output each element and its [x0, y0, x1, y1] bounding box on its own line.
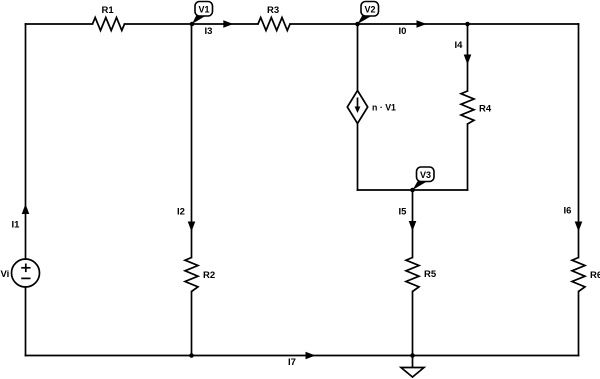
- svg-text:R6: R6: [590, 270, 600, 281]
- svg-text:R3: R3: [267, 5, 279, 16]
- current arrow I7: [306, 352, 316, 360]
- svg-text:R2: R2: [203, 270, 215, 281]
- current arrow I5: [409, 221, 417, 231]
- svg-text:Vi: Vi: [1, 269, 10, 280]
- dependent source n·V1 (diamond): [347, 91, 367, 124]
- resistor R6: [572, 258, 585, 292]
- wire: right wire from top-right corner down to R6: [578, 24, 580, 258]
- node label V2: [358, 2, 379, 25]
- junction I4 branch: [465, 22, 470, 27]
- junction ground: [410, 353, 415, 358]
- svg-text:V3: V3: [420, 170, 431, 180]
- resistor R5: [406, 258, 419, 292]
- current arrow I0: [417, 20, 427, 28]
- svg-text:I0: I0: [399, 26, 407, 37]
- resistor R1: [93, 18, 125, 31]
- svg-text:I6: I6: [564, 206, 572, 217]
- svg-text:V2: V2: [365, 5, 376, 15]
- wire: bottom wire from bottom-left corner to R2 junction: [26, 355, 192, 357]
- wire: vertical from node V2 down to dependent source: [357, 24, 359, 91]
- svg-text:R5: R5: [424, 269, 437, 280]
- wire: vertical from node V1 down to R2: [191, 24, 193, 258]
- node label V3: [413, 167, 435, 190]
- current arrow I3: [223, 20, 233, 28]
- current arrow I4: [464, 55, 472, 65]
- junction node V2: [355, 22, 360, 27]
- voltage source Vi: [12, 259, 40, 287]
- resistor R2: [185, 258, 198, 292]
- svg-text:I2: I2: [177, 207, 185, 218]
- wire: vertical from I4 junction down to R4: [467, 24, 469, 91]
- wire: vertical from R5 down to ground junction: [412, 292, 414, 356]
- wire: right wire from R6 down to bottom-right corner: [578, 292, 580, 356]
- wire: bottom wire from R2 junction to ground junction: [192, 355, 413, 357]
- wire: vertical from dependent source down to node V3 wire: [357, 124, 359, 191]
- resistor R4: [461, 91, 474, 124]
- junction node V3: [410, 188, 415, 193]
- current arrow I1: [22, 204, 30, 214]
- svg-text:V1: V1: [199, 5, 210, 15]
- wire: vertical from R2 down to bottom wire: [191, 292, 193, 356]
- current arrow I6: [575, 222, 583, 232]
- wire: vertical from R4 down to node V3 wire: [467, 124, 469, 190]
- wire: bottom wire from ground junction to bottom-right corner: [413, 355, 579, 357]
- wire: left wire from top-left corner down to Vi source: [25, 24, 27, 259]
- wire: top wire from node V2 to I4 junction: [358, 23, 468, 25]
- svg-text:I4: I4: [455, 40, 464, 51]
- wire: vertical from node V3 down to R5: [412, 190, 414, 258]
- svg-text:n · V1: n · V1: [372, 103, 396, 113]
- svg-text:I5: I5: [399, 207, 408, 218]
- wire: top wire from R3 to node V2: [290, 23, 358, 25]
- wire: top wire from R1 to node V1: [125, 23, 193, 25]
- current arrow I2: [188, 222, 196, 232]
- node label V1: [192, 2, 213, 25]
- resistor R3: [258, 18, 290, 31]
- svg-text:I1: I1: [12, 220, 21, 231]
- wire: left wire from Vi source down to bottom-left corner: [25, 287, 27, 356]
- svg-text:I7: I7: [288, 357, 296, 368]
- ground: [401, 356, 424, 378]
- junction R2 bottom: [189, 353, 194, 358]
- wire: top wire from node V1 to R3: [192, 23, 258, 25]
- junction node V1: [190, 22, 195, 27]
- svg-text:R1: R1: [102, 5, 115, 16]
- wire: top wire from I4 junction to top-right corner: [468, 23, 579, 25]
- svg-text:R4: R4: [479, 104, 492, 115]
- wire: horizontal from dependent source leg to R4 leg along node V3: [358, 189, 468, 191]
- svg-text:I3: I3: [205, 26, 213, 37]
